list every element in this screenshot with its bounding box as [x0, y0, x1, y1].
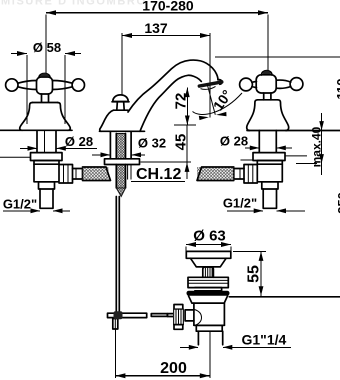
- svg-text:G1"1/4: G1"1/4: [242, 332, 287, 348]
- knurled nut on waste rod: [174, 305, 184, 330]
- svg-text:Ø 63: Ø 63: [193, 228, 226, 245]
- waste taper flange: [189, 296, 228, 303]
- dimension 137: [122, 20, 210, 117]
- dimension O28 right: [220, 134, 292, 151]
- dimension O58: [11, 40, 81, 124]
- dimension G1/2 left: [3, 197, 70, 214]
- dimension 55: [233, 251, 266, 295]
- angle 10 annotation: [193, 85, 243, 121]
- spout finial cap: [112, 95, 129, 110]
- right braided hose: [197, 167, 234, 181]
- waste black seal ring: [187, 291, 230, 296]
- left handle bell: [20, 103, 71, 131]
- spout shank outer tube: [110, 131, 131, 159]
- svg-text:Ø 28: Ø 28: [65, 134, 93, 149]
- waste body: [194, 303, 225, 325]
- dimension 110 line to right edge: [215, 56, 340, 58]
- svg-text:MISURE D'INGOMBRO: MISURE D'INGOMBRO: [1, 0, 145, 8]
- right handle cross: [240, 71, 303, 100]
- dimension 200: [115, 360, 209, 378]
- dimension 72: [173, 88, 190, 125]
- svg-text:200: 200: [160, 360, 187, 377]
- svg-text:45: 45: [173, 134, 190, 151]
- svg-text:110: 110: [334, 79, 340, 100]
- svg-text:max.40: max.40: [310, 126, 324, 167]
- spout head outlet: [199, 82, 222, 89]
- svg-text:CH.12: CH.12: [136, 166, 181, 183]
- dimension O63: [186, 228, 231, 252]
- dimension 45: [141, 125, 197, 179]
- waste ball arc: [195, 310, 202, 326]
- spout flange: [105, 159, 140, 165]
- label CH.12: [131, 166, 185, 183]
- left valve side fitting: [59, 165, 83, 184]
- waste plug guide knob: [203, 267, 214, 277]
- dimension G1/2 right: [223, 196, 305, 214]
- dimension G1 1/4: [180, 332, 291, 350]
- horizontal lever bar: [108, 311, 175, 319]
- dimension 170-280: [46, 0, 268, 75]
- extension line from rod to 200 dim: [114, 329, 116, 378]
- left handle cross: [6, 73, 85, 102]
- waste tailpiece: [196, 325, 222, 345]
- waste bottom line: [194, 324, 225, 326]
- waste deck line right: [229, 296, 340, 298]
- waste centerline extension: [209, 332, 211, 379]
- right valve side fitting: [234, 165, 257, 184]
- deck line right: [247, 130, 340, 132]
- svg-text:Ø 28: Ø 28: [220, 134, 248, 149]
- left valve body: [34, 161, 59, 182]
- dimension max.40: [296, 113, 324, 175]
- pop-up rod: [116, 197, 119, 314]
- right handle bell: [247, 100, 289, 131]
- counter line right: [286, 155, 308, 157]
- svg-text:55: 55: [246, 265, 263, 283]
- svg-text:Ø 32: Ø 32: [138, 136, 166, 151]
- waste ball housing: [185, 310, 194, 321]
- pop-up rod clamp: [113, 319, 118, 330]
- dimension O32: [92, 136, 166, 158]
- counter line left: [0, 156, 31, 158]
- svg-text:250: 250: [335, 192, 340, 214]
- svg-text:170-280: 170-280: [142, 0, 194, 14]
- dimension O28 left: [20, 134, 97, 151]
- svg-text:G1/2": G1/2": [223, 196, 257, 211]
- svg-text:72: 72: [173, 93, 190, 110]
- waste top flange: [186, 251, 231, 266]
- right valve flange: [253, 153, 285, 161]
- line to right flange: [241, 159, 254, 161]
- faint cut-off watermark text at very top: [1, 0, 145, 8]
- left braided hose: [83, 167, 111, 181]
- guide tube below flange: [128, 165, 131, 180]
- deck line left: [0, 129, 72, 131]
- right valve neck and tail: [262, 182, 278, 209]
- right valve body: [257, 161, 282, 182]
- waste upper ring: [188, 277, 228, 291]
- left valve flange: [31, 153, 63, 161]
- svg-text:Ø 58: Ø 58: [33, 40, 61, 55]
- right valve shank: [259, 131, 276, 153]
- left valve neck and tail: [39, 182, 55, 209]
- svg-text:137: 137: [144, 20, 168, 36]
- left valve shank: [37, 130, 56, 152]
- spout threaded rod hatched: [116, 134, 125, 197]
- spout body and base bell: [100, 60, 223, 131]
